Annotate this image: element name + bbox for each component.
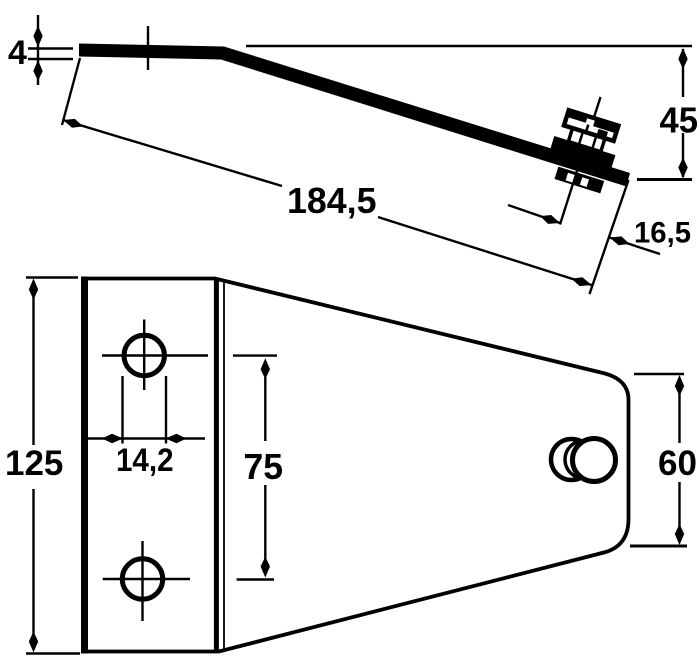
extension line left of 14,2-dim	[121, 376, 123, 444]
stud plan main circle	[573, 439, 616, 482]
dimension line 60 lower segment	[678, 482, 680, 542]
bend line left (thick)	[214, 280, 219, 651]
arrowhead 60 top (pointing up)	[675, 375, 684, 396]
bar side view (bent flat bar)	[79, 44, 630, 187]
dimension line 75 upper segment	[264, 361, 266, 441]
extension line right of 184,5-dim (through bar end)	[590, 180, 629, 294]
svg-text:60: 60	[658, 444, 697, 483]
arrowhead 4-dim top (pointing down)	[33, 26, 42, 47]
stud centerline (perpendicular to bar)	[560, 97, 601, 225]
hole 2 horizontal centerline	[103, 578, 190, 580]
stud cap	[564, 110, 618, 141]
stud cap inner right patch	[596, 129, 608, 139]
extension line top of 4-dim (upper)	[28, 47, 73, 49]
extension line bottom of 75-dim	[237, 578, 274, 580]
stud neck right inner line	[593, 137, 596, 147]
bend line right (thin)	[223, 280, 225, 651]
ball stud fitting on bar (rotated with bar)	[542, 108, 624, 194]
dimension line 60 upper segment	[678, 378, 680, 443]
centerline tick on bar at x=148	[147, 26, 149, 70]
extension line bottom of 60-dim	[630, 545, 687, 548]
arrowhead 125 top (pointing up)	[29, 279, 38, 300]
svg-text:125: 125	[5, 444, 63, 483]
hole 2 vertical centerline	[141, 541, 143, 621]
arrowhead 75 bottom (pointing down)	[261, 557, 270, 578]
svg-text:4: 4	[8, 34, 27, 72]
dimension line 16,5 right segment	[610, 238, 661, 255]
svg-text:14,2: 14,2	[116, 442, 174, 478]
plate outline top edge / right side / bottom edge	[82, 279, 629, 652]
plate left edge (thick)	[81, 277, 88, 654]
arrowhead 184,5 left (pointing up-left)	[62, 116, 85, 131]
arrowhead 184,5 right (pointing down-right)	[570, 274, 593, 289]
dimension line 125 lower segment	[32, 489, 34, 648]
dimension line 16,5 left segment with arrow at stud centerline	[508, 205, 560, 223]
hole 1 vertical centerline	[143, 320, 145, 391]
arrowhead 14,2 right (pointing left, outside)	[166, 434, 187, 443]
stud plan inner cylinder edge circle	[565, 441, 603, 479]
hole 1 horizontal centerline	[102, 354, 208, 356]
extension line right of 14,2-dim	[165, 376, 167, 444]
dimension line 184,5 right segment	[378, 217, 592, 285]
stud neck	[568, 128, 605, 152]
extension line of 4-dim (lower)	[28, 58, 73, 60]
svg-text:45: 45	[660, 100, 699, 141]
extension line left of 184,5-dim	[62, 58, 80, 125]
stud clinched end below bar	[554, 167, 604, 194]
dimension line 125 upper segment	[32, 281, 34, 445]
arrowhead 60 bottom (pointing down)	[675, 524, 684, 545]
arrowhead 45-dim bottom (pointing down)	[678, 158, 687, 179]
dimension line 75 lower segment	[264, 485, 266, 574]
arrowhead 16,5 right (pointing up-left)	[608, 233, 631, 248]
stud cap inner line	[586, 125, 588, 133]
arrowhead 14,2 left (pointing right, outside)	[102, 434, 123, 443]
arrowhead 4-dim bottom (pointing up)	[33, 60, 42, 81]
svg-text:16,5: 16,5	[634, 217, 691, 250]
arrowhead 75 top (pointing up)	[261, 358, 270, 379]
svg-text:75: 75	[244, 446, 284, 487]
svg-text:184,5: 184,5	[287, 180, 377, 221]
stud in plan view: left cylinder circle	[551, 439, 592, 480]
extension line top of 75-dim	[233, 354, 277, 356]
dimension line 14,2	[87, 437, 206, 439]
stud neck left inner line	[579, 133, 582, 143]
hole 2 (lower)	[122, 559, 162, 599]
dimension line 45 upper segment	[682, 49, 684, 97]
stud flange slab on bar	[550, 136, 615, 168]
extension line bottom reference for 45-dim	[637, 178, 692, 181]
stud clinch white slot left	[566, 173, 575, 183]
extension line top of 60-dim	[634, 373, 684, 375]
dimension line 45 lower segment	[682, 133, 684, 177]
extension line top of 125-dim	[26, 276, 78, 278]
hole 1 (upper)	[124, 335, 164, 375]
dimension line 4 (vertical)	[37, 15, 39, 85]
stud clinch white slot right	[580, 177, 589, 187]
arrowhead 125 bottom (pointing down)	[29, 632, 38, 653]
stud cap top-right lobe	[593, 119, 618, 134]
stud cap top-left lobe	[567, 110, 588, 123]
dimension line 184,5 left segment	[63, 120, 282, 186]
extension line bottom of 125-dim	[26, 652, 80, 654]
arrowhead 45-dim top (pointing up)	[678, 48, 687, 69]
extension line top reference for 45-dim	[246, 45, 692, 47]
arrowhead 16,5 left (pointing down-right)	[539, 212, 562, 228]
